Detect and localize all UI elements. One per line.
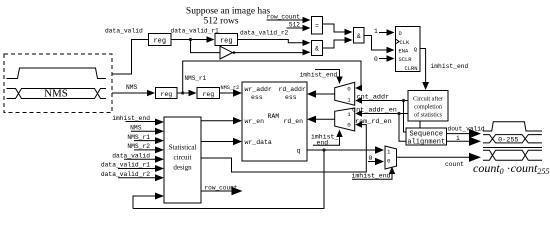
NMS bus waveform [7, 89, 107, 99]
sequence alignment block [406, 128, 447, 145]
comparator EQ1 [312, 17, 323, 35]
wire Q to statistics circuit (imhist_end) [420, 49, 426, 85]
svg-text:0: 0 [374, 56, 378, 63]
svg-text:circuit: circuit [174, 154, 192, 162]
svg-text:0: 0 [347, 86, 351, 93]
svg-text:&: & [357, 33, 361, 40]
svg-text:data_valid: data_valid [105, 28, 143, 35]
wire NMS into stat block [131, 130, 156, 132]
wire cnt_addr branch to sequence block [404, 101, 407, 133]
svg-text:ess: ess [285, 94, 297, 101]
wire q feedback down and left [133, 150, 324, 209]
arrow into DFF D [387, 29, 395, 35]
arrow into comparator input1 [303, 17, 311, 23]
bus waveform 0-255 (right) [483, 135, 542, 143]
svg-text:RAM: RAM [268, 113, 280, 120]
arrow into comparator input2 [303, 25, 311, 31]
flip-flop U1 [396, 27, 421, 72]
svg-text:512 rows: 512 rows [203, 17, 238, 27]
svg-text:completion: completion [414, 104, 442, 111]
mux M1 (rd_address select) [335, 82, 355, 105]
svg-text:alignment: alignment [407, 139, 445, 147]
svg-text:ENA: ENA [399, 48, 409, 54]
svg-text:design: design [173, 164, 192, 172]
wire 1 to DFF D [379, 32, 387, 34]
svg-text:data_valid_r1: data_valid_r1 [101, 162, 150, 169]
register reg R2 [215, 34, 238, 46]
data_valid pulse waveform [7, 68, 107, 79]
svg-text:CLK: CLK [400, 40, 410, 46]
arrow down into circuit box [422, 82, 429, 90]
svg-text:Q: Q [414, 47, 417, 53]
wire stat to RAM wr_en [201, 120, 234, 122]
arrow into AND A1 input2 [303, 49, 311, 55]
svg-text:0: 0 [347, 122, 351, 129]
wire circuit box to sequence block [419, 121, 421, 128]
wire i output [447, 140, 471, 142]
svg-text:imhist_end: imhist_end [431, 63, 469, 70]
junction on q wire [322, 148, 325, 151]
RAM block [242, 82, 307, 161]
svg-text:row_count: row_count [267, 14, 301, 21]
svg-text:512: 512 [289, 22, 300, 29]
svg-text:&: & [315, 46, 319, 53]
wire dout_valid output [447, 133, 471, 135]
arrow into DFF ENA [387, 47, 395, 53]
wire AND A1 to AND A2 [323, 40, 346, 48]
wire row_count to comparator [267, 19, 304, 21]
arrow into reg R2 [207, 36, 215, 42]
svg-text:reg: reg [202, 91, 214, 98]
wire 512 to comparator [287, 27, 304, 29]
mux M2 (rd_en select) [335, 108, 355, 131]
wire RAM q output [307, 149, 376, 151]
junction NMS_r1 [181, 91, 184, 94]
wire row_count output stub [201, 190, 232, 192]
bus label 0-255 [498, 135, 520, 142]
svg-text:ram_rd_en: ram_rd_en [355, 118, 392, 126]
wire comparator EQ1 to AND A2 [323, 24, 346, 32]
register reg R3 [156, 88, 178, 99]
svg-text:Sequence: Sequence [409, 131, 443, 139]
svg-text:of statistics: of statistics [414, 112, 443, 119]
svg-text:wr_data: wr_data [245, 139, 272, 146]
svg-text:NMS: NMS [130, 124, 142, 131]
svg-text:q: q [297, 148, 301, 155]
arrow into mux M3 input1 [375, 146, 384, 153]
svg-text:SCLR: SCLR [399, 57, 413, 63]
wire NMS_r1 to mux M1 input0 [183, 61, 361, 93]
wire data_valid from legend box to reg R1 [112, 40, 149, 75]
svg-text:rd_en: rd_en [284, 118, 304, 125]
svg-text:reg: reg [220, 38, 233, 46]
junction at buffer output [233, 51, 236, 54]
wire cnt_addr_en branch to sequence block [399, 114, 406, 142]
register reg R4 [197, 88, 220, 99]
svg-text:data_valid: data_valid [112, 152, 150, 159]
wire 0 into mux M3 input0 [368, 161, 376, 163]
wire data_valid_r1 reg R1 to reg R2 [171, 39, 208, 41]
wire stat rd_en out (ram_rd_en route) [201, 125, 366, 172]
wire count output from mux M3 [397, 156, 471, 158]
wire imhist_end select into mux M3 [352, 173, 392, 179]
svg-text:Circuit after: Circuit after [413, 96, 443, 103]
wire NMS_r1 into stat block [134, 140, 156, 142]
pin CLK with clock wedge [396, 39, 400, 44]
wire data_valid_r1 down to buffer B1 [191, 40, 220, 53]
junction cnt_addr_en branch [397, 112, 400, 115]
arrow into AND A1 input1 [303, 40, 311, 46]
svg-text:dout_valid: dout_valid [448, 126, 485, 133]
wire data_valid_r2 into stat block [118, 177, 156, 179]
svg-text:=: = [315, 23, 319, 30]
svg-text:0: 0 [387, 158, 391, 165]
wire NMS_r2 reg R4 to RAM wr_address [220, 92, 235, 94]
svg-text:imhist_end: imhist_end [300, 72, 338, 79]
arrow into RAM wr_address [233, 89, 242, 96]
AND gate A1 [312, 41, 323, 56]
wire 0 to DFF SCLR [379, 58, 387, 60]
svg-text:rd_addr: rd_addr [279, 86, 306, 93]
wire cnt_addr_en circuit box to mux M2 input1 [358, 113, 408, 115]
dout_valid pulse waveform (right) [483, 122, 542, 131]
svg-text:NMS_r2: NMS_r2 [221, 85, 240, 91]
svg-text:reg: reg [153, 38, 166, 46]
arrow NMS into reg R3 [147, 90, 155, 96]
register reg R1 [149, 34, 172, 46]
wire buffer B1 to AND gate A1 [233, 52, 304, 54]
svg-text:1: 1 [347, 97, 351, 104]
wire data_valid into stat block [124, 158, 156, 160]
arrow into reg R4 [189, 90, 197, 96]
svg-text:ess: ess [251, 94, 263, 101]
circuit-after-statistics block [408, 91, 448, 122]
wire data_valid_r1 into stat block [118, 168, 156, 170]
junction on data_valid_r1 [189, 38, 192, 41]
svg-text:1: 1 [347, 111, 351, 118]
svg-text:NMS: NMS [44, 88, 68, 100]
wire data_valid_r2 to AND gate A1 [238, 40, 304, 43]
wire stat to RAM wr_data [201, 141, 234, 143]
svg-text:i: i [456, 135, 460, 142]
svg-text:wr_addr: wr_addr [245, 86, 272, 93]
AND gate A2 [354, 28, 365, 44]
arrow into AND A2 input1 [345, 29, 353, 35]
svg-text:Statistical: Statistical [169, 144, 197, 152]
wire q feedback into stat block [133, 196, 156, 209]
count bus waveform (right) [483, 148, 542, 161]
svg-text:NMS_r1: NMS_r1 [127, 134, 150, 141]
wire imhist_end select into mux M1 [315, 70, 340, 78]
wire mux M2 out to RAM rd_en [315, 118, 335, 120]
svg-text:reg: reg [160, 91, 172, 98]
arrow into mux M1 input0 [355, 85, 362, 91]
wire imhist_end into stat block [126, 121, 157, 123]
arrow into mux M2 input0 [355, 121, 362, 127]
svg-text:count: count [445, 161, 464, 168]
mux M3 (count output select) [385, 146, 397, 169]
buffer B1 [220, 46, 233, 59]
svg-text:imhist_end: imhist_end [352, 173, 391, 180]
svg-text:D: D [399, 31, 402, 37]
wire AND A2 to DFF ENA [364, 36, 387, 51]
svg-text:1: 1 [374, 28, 378, 35]
svg-text:0: 0 [369, 155, 373, 162]
wire NMS from legend box [112, 92, 147, 94]
arrow into AND A2 input2 [345, 37, 353, 43]
svg-text:NMS_r1: NMS_r1 [185, 75, 207, 82]
svg-text:0-255: 0-255 [498, 136, 518, 144]
svg-text:data_valid_r2: data_valid_r2 [101, 171, 150, 178]
junction cnt_addr branch [402, 99, 405, 102]
wire NMS_r2 into stat block [134, 149, 156, 151]
arrow into DFF SCLR [387, 55, 395, 61]
wire NMS_r1 reg R3 to reg R4 [177, 92, 189, 94]
svg-text:data_valid_r1: data_valid_r1 [171, 28, 220, 35]
svg-text:1: 1 [387, 149, 391, 156]
wire mux M1 out to RAM rd_address [315, 93, 335, 95]
svg-text:NMS: NMS [126, 84, 138, 91]
wire imhist_end select into mux M2 [313, 137, 340, 146]
svg-text:imhist_end: imhist_end [112, 115, 150, 122]
svg-text:NMS_r2: NMS_r2 [127, 143, 150, 150]
wire cnt_addr circuit box to mux M1 input1 [358, 100, 408, 102]
waveform legend dashed box [4, 54, 112, 113]
statistical circuit design block [164, 117, 201, 203]
svg-text:Suppose an image has: Suppose an image has [186, 7, 270, 17]
svg-text:CLRN: CLRN [405, 66, 418, 72]
svg-text:data_valid_r2: data_valid_r2 [240, 30, 289, 37]
svg-text:wr_en: wr_en [245, 118, 265, 125]
